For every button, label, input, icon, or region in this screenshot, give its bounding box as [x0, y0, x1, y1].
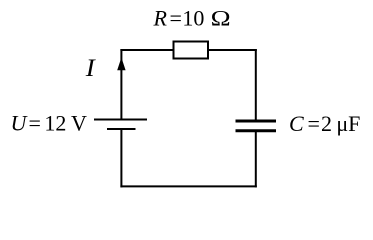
wire: top-right horizontal segment [208, 49, 257, 51]
wire: left vertical lower segment [120, 130, 122, 188]
capacitor C bottom plate [236, 129, 277, 132]
wire: top-left horizontal segment [120, 49, 174, 51]
capacitor C top plate [236, 120, 277, 123]
svg-text:R=10Ω: R=10Ω [153, 6, 231, 31]
wire: left vertical upper segment [120, 49, 122, 120]
svg-text:U=12V: U=12V [11, 111, 88, 136]
wire: right vertical lower segment [255, 132, 257, 188]
svg-text:C=2μF: C=2μF [289, 111, 360, 136]
battery U long plate [94, 119, 147, 121]
resistor R [174, 42, 209, 59]
wire: right vertical upper segment [255, 49, 257, 120]
current arrowhead I [117, 58, 125, 71]
svg-text:I: I [85, 55, 97, 82]
battery U short plate [107, 128, 136, 130]
wire: bottom horizontal segment [120, 185, 256, 187]
